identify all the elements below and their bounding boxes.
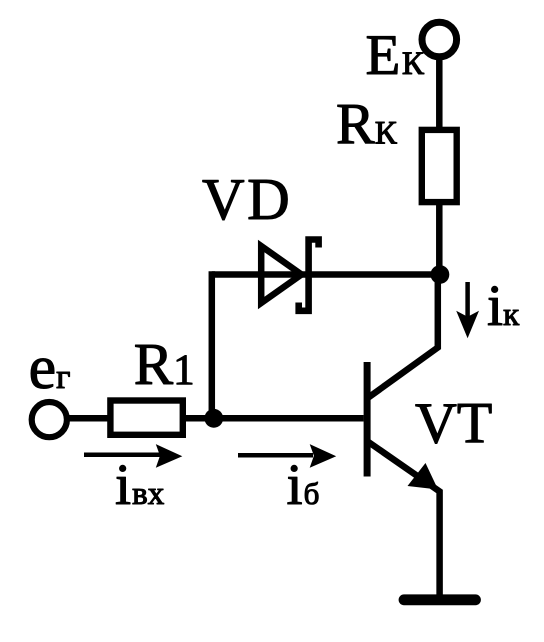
wire collector [367,271,438,399]
svg-text:VD: VD [202,166,292,232]
terminal Ek [422,22,457,57]
node collector junction [431,265,450,284]
ground [404,594,476,605]
resistor RK [422,130,457,202]
wire Rk to collector node [436,202,443,275]
svg-text:ег: ег [29,334,71,402]
wire R1 to base [182,415,364,422]
arrow i_vx shaft [84,453,160,458]
arrow i_vx head [156,444,183,468]
node base junction [204,409,223,428]
wire Ek to Rk [436,57,443,130]
svg-text:RК: RК [336,92,398,157]
arrow i_k shaft [465,282,470,318]
terminal eg [32,402,67,437]
transistor VT base bar [364,362,371,477]
arrow i_b head [310,444,337,468]
transistor VT emitter arrowhead [408,463,439,490]
svg-text:R1: R1 [134,331,195,397]
wire emitter [367,441,440,598]
wire eg to R1 [68,415,112,422]
svg-text:VT: VT [415,391,492,456]
arrow i_b shaft [238,453,313,458]
arrow i_k head [456,311,479,339]
wire diode horizontal [212,271,440,278]
resistor R1 [110,401,182,435]
diode VD schottky cathode [299,240,319,311]
wire left riser [209,271,216,418]
svg-text:ЕК: ЕК [366,24,425,87]
diode VD triangle [261,246,301,303]
svg-text:iвх: iвх [115,452,165,517]
svg-text:iк: iк [487,273,520,338]
